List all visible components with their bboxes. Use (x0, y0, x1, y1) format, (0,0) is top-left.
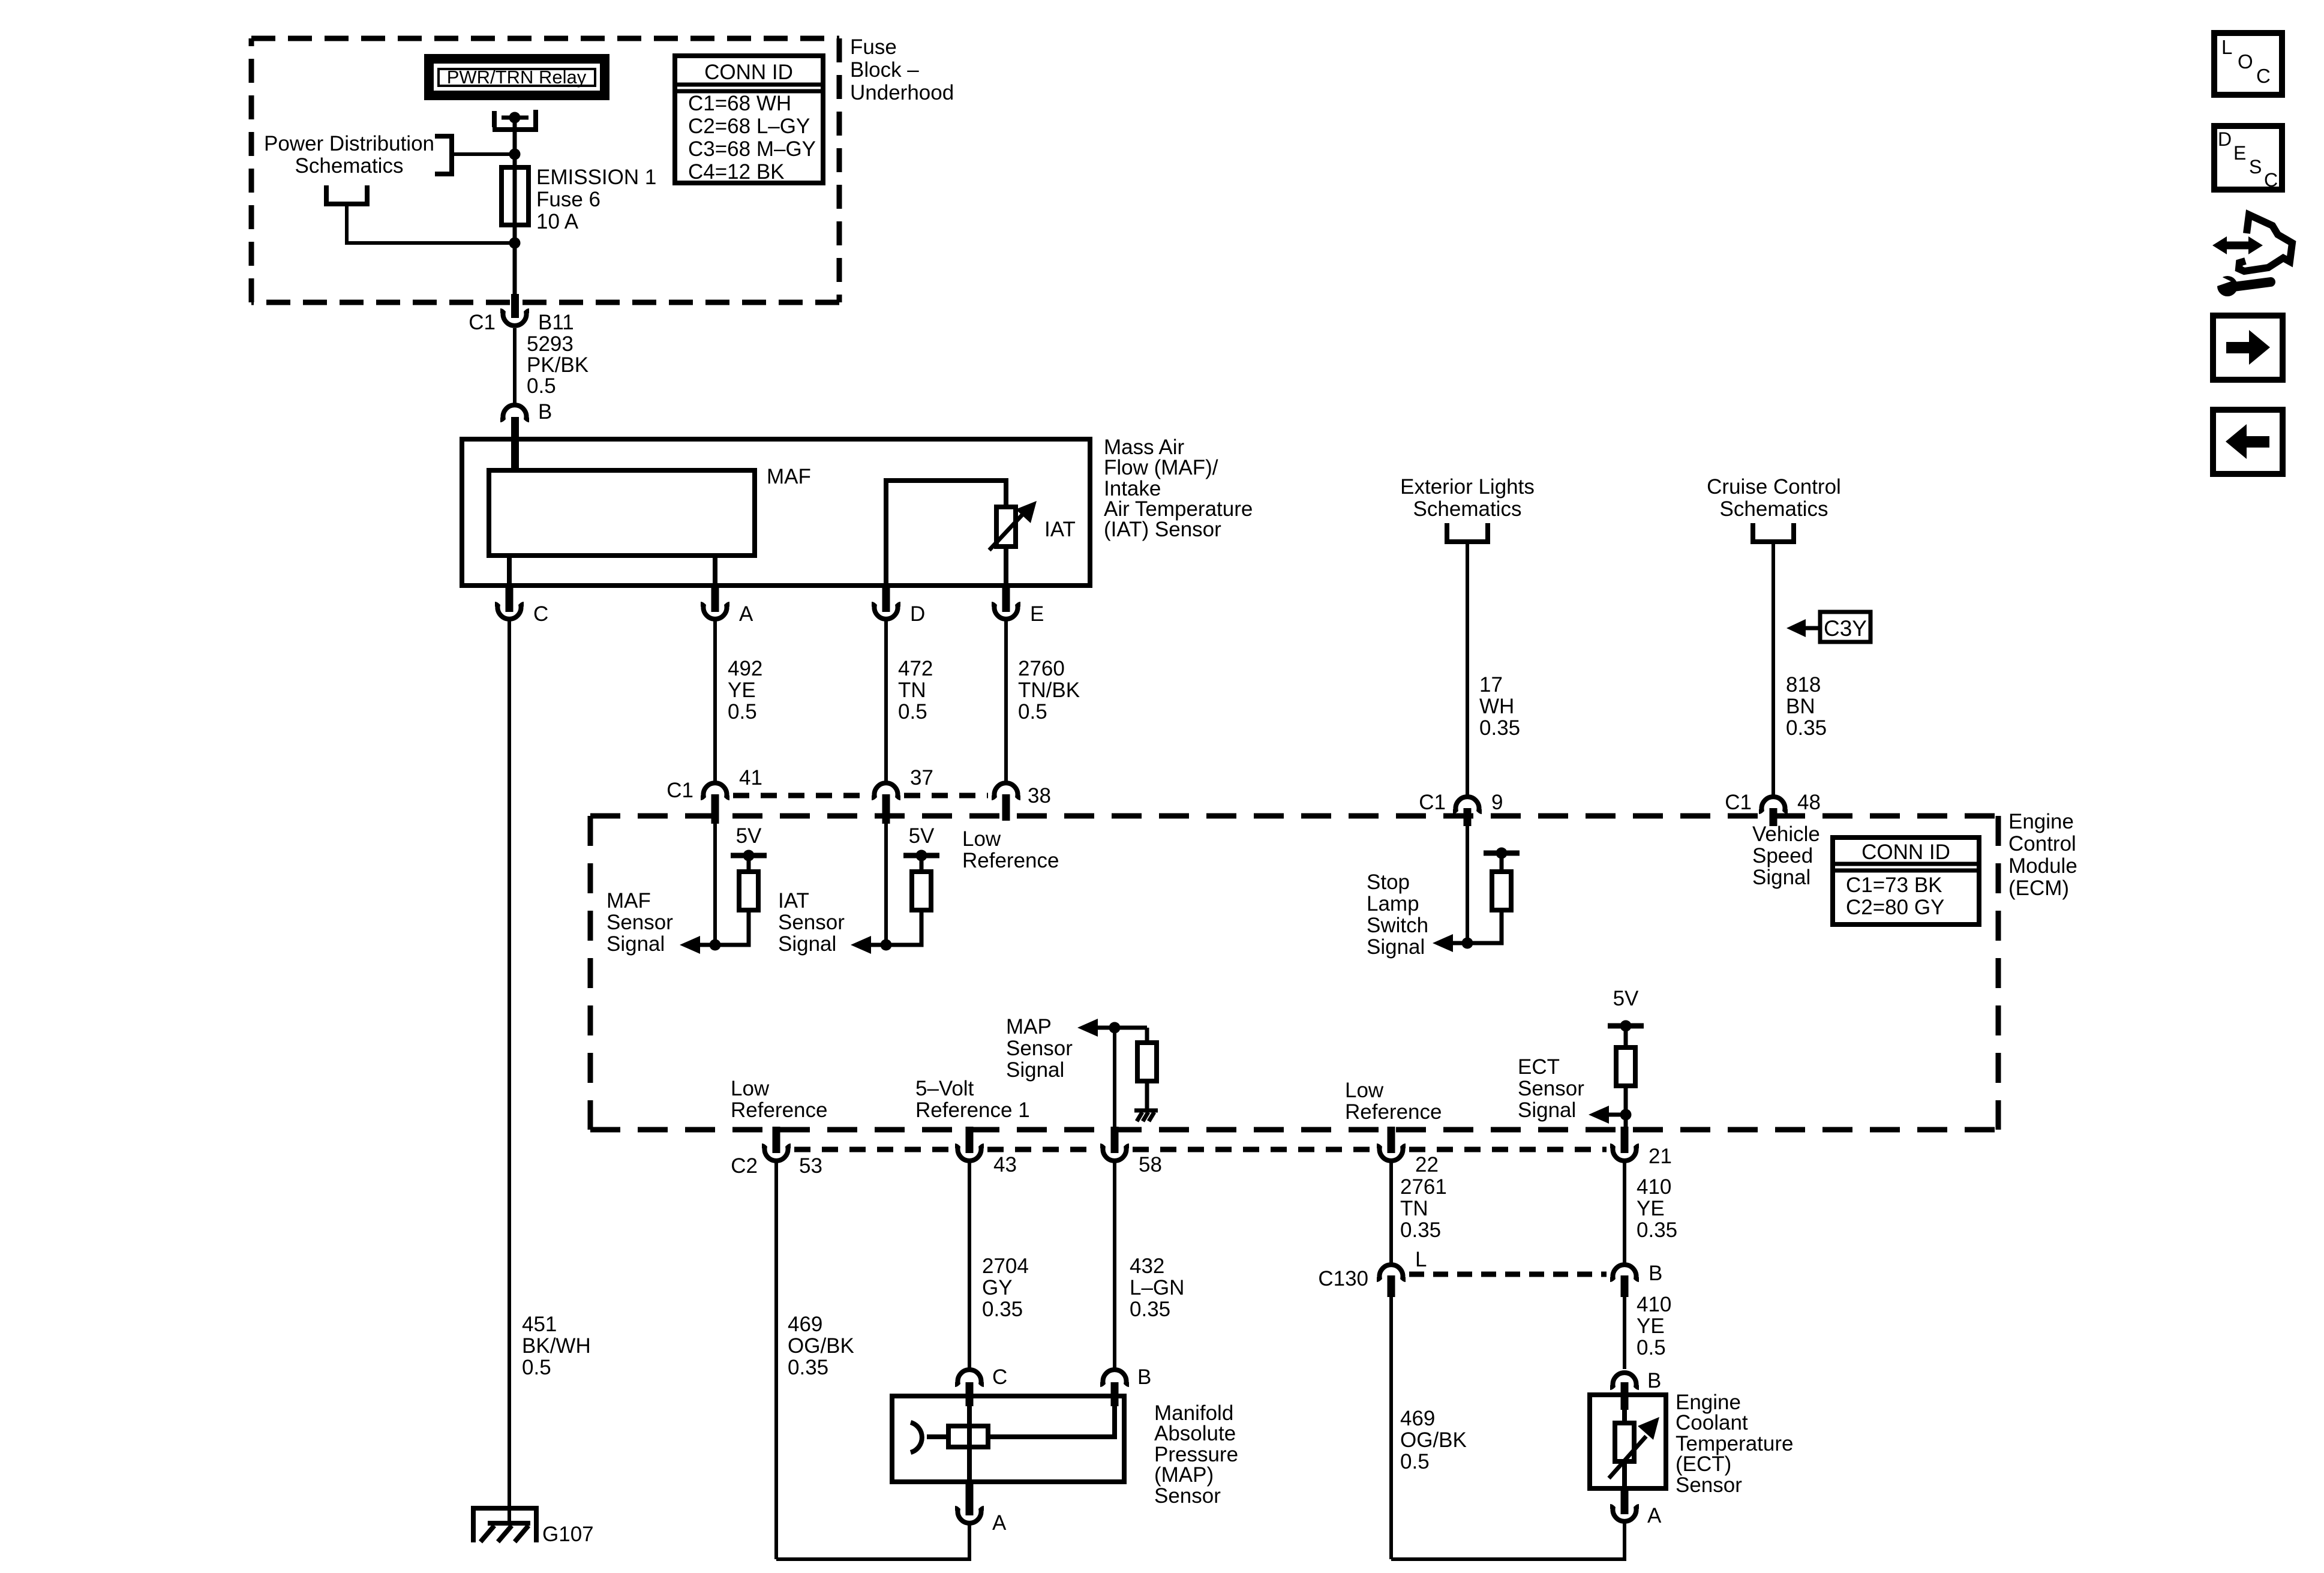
svg-text:Engine: Engine (2008, 810, 2074, 833)
connector C1 pin 37 (872, 783, 900, 798)
svg-text:MAP: MAP (1006, 1015, 1052, 1038)
svg-text:Signal: Signal (778, 932, 836, 956)
wire label 472 TN 0.5 (898, 657, 933, 724)
stop lamp signal arrow (1433, 934, 1453, 952)
MAP sensor box (892, 1396, 1124, 1482)
wire ECT A to low reference return (1391, 1523, 1625, 1559)
svg-text:17: 17 (1479, 673, 1503, 697)
svg-text:CONN ID: CONN ID (704, 61, 793, 84)
pin stub B below (1621, 1275, 1629, 1297)
connector C130 pin B (1610, 1265, 1639, 1280)
wire element to C (507, 556, 512, 586)
wire arrow to resistor branch (MAP) (1097, 1026, 1147, 1030)
connector C2 pin 21 (1610, 1146, 1639, 1161)
svg-text:EMISSION 1: EMISSION 1 (536, 166, 656, 189)
pin stub 41 (711, 794, 719, 824)
svg-text:0.5: 0.5 (1637, 1336, 1666, 1359)
label Vehicle Speed Signal (1752, 822, 1820, 889)
pin stub 9 (1464, 808, 1472, 826)
bracket cruise control (1753, 523, 1794, 542)
svg-text:469: 469 (1400, 1407, 1435, 1430)
svg-text:E: E (2233, 142, 2246, 164)
wire 818 (cruise to pin 48) (1771, 542, 1775, 796)
svg-text:Signal: Signal (1752, 866, 1810, 889)
icon DESC box (2214, 126, 2282, 191)
svg-text:D: D (2218, 128, 2232, 150)
svg-text:451: 451 (522, 1313, 557, 1336)
resistor MAP load (1137, 1043, 1157, 1081)
wire 492 (A to 41) (713, 620, 717, 782)
wire IAT resistor to E (1004, 547, 1008, 586)
svg-text:C2=80 GY: C2=80 GY (1846, 896, 1944, 919)
svg-text:Low: Low (962, 827, 1001, 851)
label Engine Coolant Temperature (ECT) Sensor (1676, 1391, 1793, 1497)
svg-text:Power Distribution: Power Distribution (264, 132, 434, 155)
cruise control schematics label (1707, 475, 1841, 521)
ECT sensor box (1590, 1395, 1666, 1488)
connector C2 pin 53 (762, 1146, 791, 1161)
wire 410 below C130 (1623, 1295, 1626, 1369)
svg-text:818: 818 (1786, 673, 1821, 697)
pin stub B11 (511, 294, 519, 318)
ECM CONN ID box (1833, 837, 1979, 924)
wire label 469 OG/BK 0.35 (788, 1313, 854, 1379)
svg-text:Fuse: Fuse (850, 35, 897, 59)
svg-text:Flow (MAF)/: Flow (MAF)/ (1104, 456, 1218, 479)
wire port to element (927, 1434, 951, 1439)
node MAP signal junction (1109, 1022, 1121, 1034)
wire 469 below C130 (1389, 1295, 1393, 1559)
wire C to ground G107 (508, 620, 511, 1523)
svg-text:PK/BK: PK/BK (527, 353, 588, 377)
wire bracket stem (347, 204, 515, 243)
svg-text:L: L (1415, 1248, 1427, 1271)
connector C2 dotted line (794, 1147, 1607, 1152)
connector C1 pin 38 (992, 783, 1020, 798)
wire relay to fuse (513, 120, 517, 300)
icon LOC box (2214, 33, 2282, 95)
wire 2760 (E to 38) (1004, 620, 1008, 782)
svg-text:OG/BK: OG/BK (1400, 1428, 1467, 1452)
svg-text:58: 58 (1139, 1153, 1162, 1176)
svg-text:492: 492 (728, 657, 762, 680)
5V supply bar (IAT) (903, 850, 939, 861)
wire 469 from pin 53 (774, 1161, 778, 1559)
svg-text:C: C (533, 602, 548, 626)
svg-text:Low: Low (1345, 1079, 1384, 1102)
connector C1 pin 9 (1453, 797, 1482, 812)
svg-text:(ECM): (ECM) (2008, 876, 2069, 900)
wire ECT internal top (1622, 1407, 1627, 1425)
wire 2704 from pin 43 (968, 1161, 971, 1369)
svg-text:Block –: Block – (850, 58, 919, 82)
svg-text:YE: YE (1637, 1197, 1665, 1220)
connector MAP pin A (955, 1508, 984, 1523)
svg-text:48: 48 (1797, 791, 1821, 814)
ground G107 bracket (473, 1508, 536, 1542)
pin stub B into MAF sensor (511, 417, 519, 472)
svg-text:A: A (739, 602, 753, 626)
ECT thermistor resistor (1615, 1423, 1634, 1461)
wire A to low reference return (776, 1523, 969, 1559)
svg-text:53: 53 (799, 1154, 822, 1178)
pin stub A below MAP (966, 1479, 974, 1515)
sensor description label (1104, 436, 1253, 541)
label Manifold Absolute Pressure (MAP) Sensor (1154, 1401, 1238, 1508)
label 5-Volt Reference 1 (915, 1077, 1030, 1122)
MAP element box (948, 1426, 988, 1447)
node ECT signal junction (1620, 1109, 1632, 1121)
connector C2 pin 22 (1377, 1146, 1406, 1161)
svg-text:C: C (992, 1365, 1007, 1389)
svg-text:TN: TN (1400, 1197, 1428, 1220)
pin stub 53 (773, 1127, 780, 1153)
wire 9 to stop lamp junction (1466, 818, 1469, 943)
fuse label (536, 166, 656, 233)
node junction dot A2 (509, 238, 521, 249)
svg-text:B11: B11 (538, 311, 574, 334)
svg-text:38: 38 (1028, 784, 1051, 807)
pin stub 37 (882, 794, 890, 824)
ECT signal arrow (1589, 1106, 1626, 1124)
svg-text:C: C (2256, 65, 2271, 87)
pin stub 48 (1770, 808, 1777, 826)
svg-text:C: C (2264, 169, 2278, 191)
connector MAP pin B (1100, 1370, 1129, 1385)
svg-text:Control: Control (2008, 832, 2076, 855)
svg-text:BK/WH: BK/WH (522, 1334, 591, 1358)
svg-text:C1=73 BK: C1=73 BK (1846, 873, 1942, 897)
connector ECT pin B (1610, 1373, 1639, 1388)
svg-text:B: B (1649, 1262, 1662, 1285)
svg-text:S: S (2249, 156, 2262, 178)
5V supply bar (MAF) (731, 850, 767, 861)
wire ECT internal bottom (1622, 1461, 1627, 1488)
svg-text:L–GN: L–GN (1130, 1276, 1184, 1299)
connector pin A (701, 604, 729, 619)
svg-text:B: B (538, 400, 552, 424)
svg-text:GY: GY (982, 1276, 1013, 1299)
wire 472 (D to 37) (884, 620, 888, 782)
svg-text:C1=68 WH: C1=68 WH (688, 92, 791, 115)
wire label 492 YE 0.5 (728, 657, 762, 724)
svg-text:CONN ID: CONN ID (1861, 840, 1950, 864)
svg-text:G107: G107 (542, 1523, 594, 1546)
svg-text:21: 21 (1649, 1145, 1672, 1168)
svg-text:Fuse 6: Fuse 6 (536, 188, 600, 211)
svg-text:D: D (910, 602, 925, 626)
wire label 451 BK/WH 0.5 (522, 1313, 591, 1379)
resistor stop lamp pull-up (1492, 872, 1511, 910)
pin stub 21 (1621, 1127, 1629, 1153)
svg-text:410: 410 (1637, 1293, 1671, 1316)
PWR/TRN Relay label box (429, 59, 605, 95)
svg-text:C2=68 L–GY: C2=68 L–GY (688, 115, 810, 138)
svg-text:IAT: IAT (1044, 518, 1076, 541)
svg-text:Stop: Stop (1367, 870, 1410, 894)
svg-text:C1: C1 (1725, 791, 1752, 814)
svg-text:10 A: 10 A (536, 210, 579, 233)
svg-text:Switch: Switch (1367, 914, 1428, 937)
wire label 410 YE 0.35 (1637, 1175, 1677, 1242)
wire 432 from pin 58 (1113, 1161, 1116, 1369)
MAF sensing element box (489, 470, 755, 556)
wire label 818 BN 0.35 (1786, 673, 1827, 740)
svg-text:O: O (2238, 50, 2253, 73)
svg-text:37: 37 (910, 766, 933, 789)
resistor IAT pull-up (912, 872, 931, 910)
wire resistor to junction (ECT) (1624, 1086, 1628, 1128)
svg-text:Exterior Lights: Exterior Lights (1400, 475, 1535, 499)
pin stub B into MAP (1111, 1382, 1119, 1406)
svg-text:A: A (992, 1511, 1007, 1535)
wire 5V to resistor (IAT) (920, 855, 924, 873)
node junction dot A1 (509, 149, 521, 160)
svg-text:0.5: 0.5 (527, 374, 556, 398)
svg-text:2760: 2760 (1018, 657, 1065, 680)
node IAT signal junction (881, 939, 892, 951)
connector C1 pin B11 (500, 311, 529, 326)
ECM dashed border (590, 816, 1998, 1130)
svg-text:Sensor: Sensor (606, 911, 673, 934)
fuse block label (850, 35, 954, 104)
svg-text:MAF: MAF (767, 465, 811, 488)
wire label 2704 GY 0.35 (982, 1254, 1029, 1321)
pin stub A below ECT (1621, 1486, 1629, 1514)
svg-text:IAT: IAT (778, 889, 809, 912)
svg-text:0.35: 0.35 (982, 1298, 1023, 1321)
pin stub C into MAP (966, 1382, 974, 1406)
svg-text:(ECT): (ECT) (1676, 1452, 1731, 1476)
pin stub C (506, 586, 514, 612)
svg-text:ECT: ECT (1518, 1055, 1560, 1079)
svg-text:432: 432 (1130, 1254, 1164, 1278)
svg-text:MAF: MAF (606, 889, 651, 912)
svg-text:Reference: Reference (731, 1098, 827, 1122)
svg-text:5–Volt: 5–Volt (915, 1077, 974, 1100)
svg-text:Speed: Speed (1752, 844, 1813, 867)
svg-text:Coolant: Coolant (1676, 1411, 1748, 1434)
MAP signal arrow (1077, 1019, 1098, 1037)
pin stub 38 (1002, 794, 1010, 821)
wire resistor to junction (IAT) (870, 910, 921, 945)
svg-text:C130: C130 (1318, 1267, 1368, 1290)
connector C3Y tag box (1820, 612, 1870, 642)
connector pin E (992, 604, 1020, 619)
svg-text:0.5: 0.5 (1018, 700, 1047, 724)
resistor ECT pull-up (1616, 1047, 1635, 1086)
wire MAP junction to pin 58 (1113, 1028, 1116, 1128)
svg-text:Underhood: Underhood (850, 81, 954, 104)
wire branch to resistor (MAP) (1145, 1028, 1149, 1044)
svg-text:0.35: 0.35 (1637, 1218, 1677, 1242)
pin stub L below (1388, 1275, 1395, 1297)
5V supply bar (ECT) (1608, 1020, 1644, 1032)
MAF/IAT sensor box (462, 439, 1090, 586)
connector C130 dashed line (1409, 1272, 1607, 1277)
svg-text:TN: TN (898, 679, 926, 702)
wire element to pin B riser (986, 1398, 1115, 1437)
resistor MAF pull-up (739, 872, 758, 910)
svg-text:B: B (1137, 1365, 1151, 1389)
svg-text:Reference 1: Reference 1 (915, 1098, 1030, 1122)
svg-text:YE: YE (728, 679, 756, 702)
MAF signal arrow (680, 936, 700, 954)
C3Y arrow (1786, 619, 1819, 637)
svg-text:Signal: Signal (606, 932, 665, 956)
wire C through element to A (967, 1404, 972, 1482)
connector C1 dotted line (733, 793, 988, 798)
connector C1 pin 41 (701, 783, 729, 798)
svg-text:0.35: 0.35 (1130, 1298, 1170, 1321)
svg-text:Sensor: Sensor (1154, 1484, 1221, 1508)
node stop lamp junction (1462, 938, 1473, 949)
svg-text:C3=68 M–GY: C3=68 M–GY (688, 137, 816, 161)
wire bar to resistor (stop lamp) (1500, 853, 1504, 873)
label MAP Sensor Signal (1006, 1015, 1073, 1082)
wire label 410 YE 0.5 (1637, 1293, 1671, 1359)
svg-text:C3Y: C3Y (1824, 616, 1867, 641)
svg-text:5V: 5V (909, 824, 935, 848)
svg-text:22: 22 (1415, 1153, 1439, 1176)
bracket to power distribution (lower) (326, 185, 367, 204)
svg-text:PWR/TRN Relay: PWR/TRN Relay (447, 67, 587, 88)
label Low Reference (pin 53) (731, 1077, 827, 1122)
bracket to power distribution (right) (435, 136, 452, 174)
wire resistor to junction (MAF) (699, 910, 749, 945)
svg-text:0.35: 0.35 (1400, 1218, 1441, 1242)
svg-text:(MAP): (MAP) (1154, 1463, 1214, 1487)
pin stub A (711, 586, 719, 612)
svg-text:Schematics: Schematics (1413, 497, 1522, 521)
svg-text:41: 41 (739, 766, 762, 789)
svg-text:Sensor: Sensor (778, 911, 845, 934)
pin stub D (882, 586, 890, 612)
IAT signal arrow (851, 936, 871, 954)
svg-text:469: 469 (788, 1313, 822, 1336)
wire label 2760 TN/BK 0.5 (1018, 657, 1080, 724)
connector pin C (495, 604, 524, 619)
svg-text:0.5: 0.5 (728, 700, 757, 724)
svg-text:WH: WH (1479, 695, 1514, 718)
svg-text:472: 472 (898, 657, 933, 680)
svg-text:C1: C1 (469, 311, 496, 334)
svg-text:Signal: Signal (1518, 1098, 1576, 1122)
pin stub 22 (1388, 1127, 1395, 1153)
icon wrench (2210, 272, 2271, 296)
wire bracket to relay wire (452, 152, 515, 156)
svg-text:E: E (1030, 602, 1044, 626)
connector ECT pin A (1610, 1506, 1639, 1521)
label Stop Lamp Switch Signal (1367, 870, 1428, 959)
label ECT Sensor Signal (1518, 1055, 1584, 1122)
label Low Reference (pin 38) (962, 827, 1059, 872)
wire 5V to resistor (MAF) (747, 855, 751, 873)
svg-text:0.5: 0.5 (1400, 1450, 1430, 1473)
connector pin B (MAF) (500, 405, 529, 420)
wire label 17 WH 0.35 (1479, 673, 1520, 740)
svg-text:Absolute: Absolute (1154, 1422, 1236, 1445)
connector C2 pin 58 (1100, 1146, 1129, 1161)
svg-text:Schematics: Schematics (295, 154, 404, 178)
svg-text:A: A (1647, 1504, 1662, 1527)
svg-text:2761: 2761 (1400, 1175, 1447, 1199)
pin stub 58 (1111, 1127, 1119, 1153)
svg-text:Schematics: Schematics (1720, 497, 1828, 521)
MAP port symbol (911, 1422, 922, 1452)
svg-text:C1: C1 (666, 779, 693, 802)
svg-text:0.35: 0.35 (788, 1356, 828, 1379)
svg-text:0.5: 0.5 (898, 700, 927, 724)
connector pin D (872, 604, 900, 619)
svg-text:Cruise Control: Cruise Control (1707, 475, 1841, 499)
fuse block CONN ID box (675, 56, 823, 184)
connector C130 pin L (1377, 1265, 1406, 1280)
svg-text:Vehicle: Vehicle (1752, 822, 1820, 846)
svg-text:Lamp: Lamp (1367, 892, 1419, 915)
svg-text:C1: C1 (1419, 791, 1446, 814)
ECM label (2008, 810, 2077, 900)
icon back arrow box (2213, 410, 2283, 474)
wire label 469 OG/BK 0.5 (1400, 1407, 1467, 1473)
ECM internal ground (1134, 1110, 1158, 1121)
svg-text:Module: Module (2008, 854, 2077, 878)
wire 5V to resistor (ECT) (1624, 1026, 1628, 1049)
wire 41 to MAF signal junction (713, 818, 717, 945)
wire 5293 (513, 328, 517, 403)
power distribution schematics label (264, 132, 434, 178)
svg-text:0.35: 0.35 (1479, 716, 1520, 740)
wire 17 (exterior lights to pin 9) (1466, 542, 1469, 796)
svg-text:BN: BN (1786, 695, 1815, 718)
supply bar (stop lamp) (1484, 848, 1520, 859)
svg-text:Reference: Reference (962, 849, 1059, 872)
svg-text:Sensor: Sensor (1518, 1077, 1584, 1100)
fuse F6 EMISSION 1 (502, 167, 529, 225)
svg-text:5293: 5293 (527, 332, 574, 356)
wire label 5293 PK/BK 0.5 (527, 332, 588, 398)
svg-text:C2: C2 (731, 1154, 758, 1178)
connector MAP pin C (955, 1370, 984, 1385)
svg-text:9: 9 (1491, 791, 1503, 814)
svg-text:Low: Low (731, 1077, 770, 1100)
relay K1 contact symbol (493, 110, 538, 130)
svg-text:Sensor: Sensor (1006, 1037, 1073, 1060)
bracket exterior lights (1447, 523, 1488, 542)
svg-text:Sensor: Sensor (1676, 1473, 1742, 1497)
pin stub 43 (966, 1127, 974, 1153)
icon forward arrow box (2213, 316, 2283, 380)
svg-text:L: L (2221, 36, 2232, 58)
IAT variable arrow (989, 501, 1037, 550)
node MAF signal junction (710, 939, 721, 951)
svg-text:OG/BK: OG/BK (788, 1334, 854, 1358)
wire resistor to ground (MAP) (1145, 1081, 1149, 1111)
icon connector-view hand (2239, 215, 2292, 271)
pin stub E (1002, 586, 1010, 612)
connector C1 pin 48 (1759, 797, 1788, 812)
svg-text:43: 43 (993, 1153, 1017, 1176)
IAT thermistor resistor (996, 507, 1016, 547)
svg-text:TN/BK: TN/BK (1018, 679, 1080, 702)
svg-text:YE: YE (1637, 1314, 1665, 1338)
wire resistor to junction (stop lamp) (1452, 910, 1502, 943)
svg-text:2704: 2704 (982, 1254, 1029, 1278)
svg-text:(IAT) Sensor: (IAT) Sensor (1104, 518, 1221, 541)
ground G107 symbol (481, 1523, 530, 1542)
svg-text:Signal: Signal (1367, 935, 1425, 959)
exterior lights schematics label (1400, 475, 1535, 521)
